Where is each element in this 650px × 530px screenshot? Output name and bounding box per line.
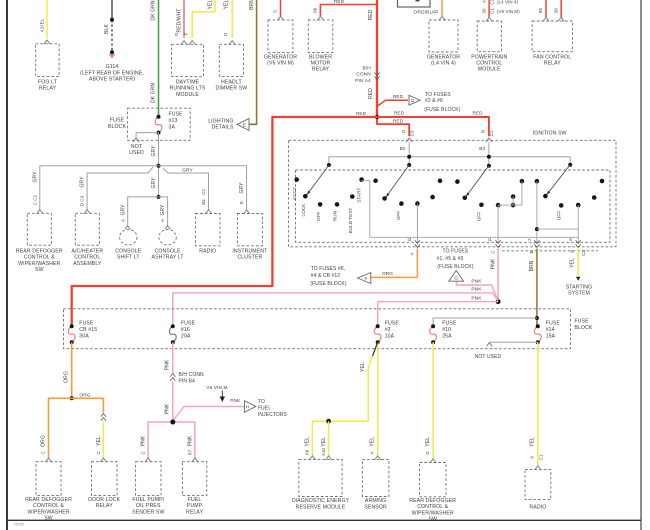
svg-text:FUSE: FUSE — [546, 321, 561, 327]
svg-text:PNK: PNK — [471, 279, 482, 285]
svg-text:OIL PRES: OIL PRES — [136, 503, 161, 509]
svg-text:(L4 VIN 4): (L4 VIN 4) — [497, 0, 518, 5]
svg-text:TO FUSES: TO FUSES — [443, 249, 469, 255]
svg-text:#4 & CB #12: #4 & CB #12 — [311, 273, 341, 279]
svg-text:YEL: YEL — [370, 437, 376, 447]
svg-text:CB #15: CB #15 — [79, 327, 97, 333]
svg-text:YEL: YEL — [224, 0, 230, 9]
svg-text:TO FUSES #8,: TO FUSES #8, — [311, 266, 345, 272]
svg-text:SENDER SW: SENDER SW — [132, 509, 164, 515]
svg-text:ASHTRAY LT: ASHTRAY LT — [152, 255, 185, 261]
svg-text:#3: #3 — [385, 327, 391, 333]
svg-text:#2 & #6: #2 & #6 — [425, 98, 443, 104]
svg-text:YEL: YEL — [40, 18, 45, 27]
svg-text:D: D — [174, 33, 179, 36]
svg-text:PNK: PNK — [141, 435, 147, 446]
svg-text:C2: C2 — [581, 250, 586, 256]
svg-text:FUSE: FUSE — [442, 321, 457, 327]
svg-text:PNK: PNK — [164, 403, 170, 414]
svg-text:RUN: RUN — [333, 211, 338, 221]
svg-text:#14: #14 — [546, 327, 555, 333]
svg-text:C: C — [141, 451, 146, 454]
svg-text:A: A — [528, 237, 531, 242]
svg-text:G114: G114 — [106, 64, 119, 70]
svg-text:A: A — [160, 219, 165, 222]
svg-text:PNK: PNK — [230, 398, 241, 404]
svg-text:C: C — [96, 451, 101, 454]
svg-text:FAN CONTROL: FAN CONTROL — [533, 54, 571, 60]
svg-text:ASSEMBLY: ASSEMBLY — [73, 261, 102, 267]
svg-text:DIMMER SW: DIMMER SW — [216, 86, 248, 92]
svg-text:A: A — [409, 252, 414, 255]
svg-text:H: H — [246, 404, 250, 409]
svg-text:CONSOLE: CONSOLE — [115, 248, 142, 254]
svg-text:C1: C1 — [490, 8, 495, 14]
svg-text:FUSE: FUSE — [79, 321, 94, 327]
svg-text:REAR DEFOGGER: REAR DEFOGGER — [16, 248, 63, 254]
svg-text:B2: B2 — [400, 146, 406, 151]
svg-text:YEL: YEL — [360, 362, 366, 372]
svg-text:CLUSTER: CLUSTER — [237, 255, 262, 261]
svg-text:MODULE: MODULE — [176, 92, 199, 98]
svg-text:85: 85 — [538, 8, 543, 14]
svg-text:FUSE: FUSE — [574, 319, 589, 325]
svg-text:SENSOR: SENSOR — [364, 504, 387, 510]
svg-text:PNK: PNK — [471, 295, 482, 301]
svg-text:G: G — [454, 275, 458, 280]
svg-text:SW: SW — [35, 267, 44, 273]
svg-text:A: A — [481, 0, 486, 3]
svg-text:C3: C3 — [409, 130, 414, 136]
svg-text:RELAY: RELAY — [186, 509, 204, 515]
svg-text:GRY: GRY — [80, 176, 86, 188]
svg-text:A/C/HEATER: A/C/HEATER — [71, 248, 103, 254]
svg-text:SHIFT LT: SHIFT LT — [117, 255, 141, 261]
svg-text:C2: C2 — [490, 0, 495, 5]
svg-text:A10: A10 — [321, 447, 326, 456]
svg-text:(FUSE BLOCK): (FUSE BLOCK) — [310, 281, 346, 287]
svg-text:OFF: OFF — [316, 211, 321, 221]
svg-text:CONTROL &: CONTROL & — [33, 503, 64, 509]
svg-text:ORG: ORG — [63, 371, 69, 383]
svg-text:CONTROL &: CONTROL & — [24, 255, 55, 261]
svg-text:G: G — [425, 451, 430, 455]
svg-text:B/H: B/H — [363, 65, 372, 71]
svg-text:TO FUSES: TO FUSES — [425, 92, 451, 98]
svg-text:C2: C2 — [201, 189, 206, 195]
svg-text:CONSOLE: CONSOLE — [155, 248, 182, 254]
svg-text:REAR DEFOGGER: REAR DEFOGGER — [409, 498, 456, 504]
svg-text:CONTROL: CONTROL — [476, 61, 502, 67]
svg-text:RELAY: RELAY — [96, 503, 114, 509]
svg-text:(LEFT REAR OF ENGINE,: (LEFT REAR OF ENGINE, — [80, 70, 144, 76]
svg-text:FUEL: FUEL — [258, 406, 271, 412]
svg-text:TO: TO — [258, 399, 265, 405]
svg-text:FOG LT: FOG LT — [38, 80, 58, 86]
svg-text:YEL: YEL — [305, 437, 311, 447]
svg-text:S: S — [273, 10, 278, 13]
svg-text:D: D — [411, 98, 415, 103]
svg-text:REAR DEFOGGER: REAR DEFOGGER — [25, 497, 72, 503]
svg-text:YEL: YEL — [207, 0, 213, 9]
svg-text:GRY: GRY — [239, 182, 245, 194]
svg-text:RESERVE MODULE: RESERVE MODULE — [296, 504, 346, 510]
svg-text:E: E — [529, 250, 534, 253]
svg-text:#1, #5 & #9: #1, #5 & #9 — [437, 256, 464, 262]
svg-text:GENERATOR: GENERATOR — [264, 54, 297, 60]
svg-text:NOT: NOT — [131, 144, 143, 150]
svg-text:#13: #13 — [169, 118, 178, 124]
svg-text:RED: RED — [368, 9, 374, 20]
svg-text:GRY: GRY — [151, 145, 157, 157]
svg-text:ABOVE STARTER): ABOVE STARTER) — [89, 77, 135, 83]
svg-text:YEL: YEL — [96, 436, 102, 446]
svg-text:RED: RED — [334, 0, 345, 4]
svg-text:PIN A4: PIN A4 — [355, 78, 371, 84]
svg-text:ARMING: ARMING — [365, 498, 386, 504]
svg-text:C: C — [41, 451, 46, 454]
svg-text:RUNNING LTS: RUNNING LTS — [170, 86, 206, 92]
svg-text:BLOCK: BLOCK — [108, 124, 127, 130]
svg-text:B/H CONN: B/H CONN — [179, 372, 205, 378]
svg-text:WIPER/WASHER: WIPER/WASHER — [18, 261, 60, 267]
svg-text:#10: #10 — [442, 327, 451, 333]
svg-text:DOOR LOCK: DOOR LOCK — [88, 497, 120, 503]
svg-text:O: O — [401, 129, 406, 133]
svg-text:D: D — [223, 33, 228, 36]
svg-text:DK GRN: DK GRN — [151, 0, 157, 20]
svg-text:9: 9 — [529, 456, 534, 459]
svg-text:RED: RED — [393, 119, 404, 124]
svg-text:WIPER/WASHER: WIPER/WASHER — [412, 510, 454, 516]
svg-text:C1: C1 — [489, 130, 494, 136]
svg-text:GRY: GRY — [120, 204, 126, 216]
svg-text:GRY: GRY — [32, 171, 38, 183]
svg-text:ORG: ORG — [41, 435, 47, 447]
svg-text:MODULE: MODULE — [478, 67, 501, 73]
svg-text:ORG/BLK: ORG/BLK — [413, 10, 436, 16]
svg-text:BLOCK: BLOCK — [574, 325, 593, 331]
svg-text:YEL: YEL — [529, 437, 535, 447]
svg-text:CONTROL &: CONTROL & — [417, 504, 448, 510]
svg-text:STARTING: STARTING — [566, 284, 593, 290]
svg-text:C1: C1 — [539, 454, 544, 460]
svg-text:RADIO: RADIO — [199, 248, 216, 254]
svg-text:V6 VIN M: V6 VIN M — [206, 385, 227, 391]
svg-text:YEL: YEL — [570, 258, 576, 268]
svg-text:INSTRUMENT: INSTRUMENT — [232, 248, 268, 254]
svg-text:FUSE: FUSE — [110, 118, 125, 124]
svg-text:3A: 3A — [169, 124, 176, 130]
svg-text:OFF: OFF — [396, 211, 401, 221]
svg-text:BULB TEST: BULB TEST — [348, 207, 353, 233]
svg-text:F: F — [365, 276, 368, 281]
svg-text:SW: SW — [428, 517, 437, 523]
svg-text:PNK: PNK — [164, 359, 170, 370]
svg-text:C C1: C C1 — [32, 194, 37, 205]
svg-text:MOTOR: MOTOR — [311, 61, 331, 67]
svg-text:ORG: ORG — [79, 392, 90, 398]
svg-text:FUSE: FUSE — [385, 321, 400, 327]
svg-text:A: A — [570, 250, 575, 253]
svg-text:BRN: BRN — [529, 260, 535, 271]
svg-text:E: E — [239, 201, 244, 204]
svg-text:RED: RED — [393, 94, 404, 99]
svg-text:D C3: D C3 — [80, 195, 85, 206]
svg-text:RED: RED — [368, 88, 374, 99]
svg-text:BLK: BLK — [104, 24, 110, 34]
svg-text:ACCY: ACCY — [292, 187, 297, 200]
svg-text:D: D — [434, 10, 439, 13]
svg-text:PUMP: PUMP — [187, 503, 203, 509]
svg-text:30A: 30A — [79, 333, 89, 339]
svg-text:GENERATOR: GENERATOR — [427, 54, 460, 60]
svg-text:OFF: OFF — [557, 211, 562, 221]
svg-text:A1: A1 — [40, 26, 45, 32]
svg-text:RADIO: RADIO — [529, 505, 546, 511]
svg-text:GRY: GRY — [160, 204, 166, 216]
svg-text:GRY: GRY — [182, 167, 193, 173]
svg-text:WIPER/WASHER: WIPER/WASHER — [27, 509, 69, 515]
svg-text:10A: 10A — [385, 333, 395, 339]
svg-text:I3: I3 — [408, 237, 412, 242]
svg-text:(V6 VIN M): (V6 VIN M) — [497, 9, 520, 14]
svg-text:DK GRN: DK GRN — [151, 83, 157, 103]
svg-text:RED: RED — [394, 111, 405, 116]
svg-text:FUSE: FUSE — [169, 112, 184, 118]
svg-text:RELAY: RELAY — [39, 86, 57, 92]
svg-text:FUEL: FUEL — [188, 497, 202, 503]
svg-text:OFF: OFF — [477, 212, 482, 222]
svg-text:PNK: PNK — [490, 258, 496, 269]
svg-text:DAYTIME: DAYTIME — [176, 80, 200, 86]
svg-text:E: E — [243, 122, 246, 127]
svg-text:S: S — [569, 237, 572, 242]
svg-text:RELAY: RELAY — [544, 61, 562, 67]
svg-text:GRY: GRY — [151, 177, 157, 189]
svg-text:B: B — [480, 130, 485, 133]
svg-text:(FUSE BLOCK): (FUSE BLOCK) — [437, 264, 473, 270]
svg-text:20A: 20A — [181, 333, 191, 339]
svg-text:86: 86 — [313, 7, 318, 13]
svg-text:(V6 VIN M): (V6 VIN M) — [267, 61, 294, 67]
svg-text:SW: SW — [44, 516, 53, 522]
svg-text:RELAY: RELAY — [312, 67, 330, 73]
svg-text:CONN: CONN — [356, 72, 371, 78]
svg-text:87: 87 — [187, 449, 192, 455]
svg-text:CONTROL: CONTROL — [74, 255, 100, 261]
svg-text:YEL: YEL — [321, 437, 327, 447]
svg-text:BLOWER: BLOWER — [309, 54, 332, 60]
svg-text:PIN B4: PIN B4 — [179, 378, 196, 384]
svg-text:YEL: YEL — [425, 437, 431, 447]
svg-text:#16: #16 — [181, 327, 190, 333]
svg-text:DETAILS: DETAILS — [212, 125, 234, 131]
svg-text:F: F — [184, 32, 189, 35]
svg-text:A8: A8 — [305, 449, 310, 455]
svg-text:DIAGNOSTIC ENERGY: DIAGNOSTIC ENERGY — [292, 498, 350, 504]
svg-text:BRN: BRN — [249, 0, 255, 10]
svg-text:RED: RED — [473, 111, 484, 116]
svg-text:FUEL PUMP/: FUEL PUMP/ — [132, 497, 164, 503]
svg-text:A: A — [370, 451, 375, 454]
svg-text:B4: B4 — [201, 199, 206, 205]
svg-text:LOCK: LOCK — [301, 203, 306, 217]
svg-text:(L4 VIN 4): (L4 VIN 4) — [431, 61, 456, 67]
svg-text:25A: 25A — [442, 333, 452, 339]
svg-text:30: 30 — [553, 8, 558, 14]
svg-text:PNK: PNK — [471, 286, 482, 292]
svg-text:15A: 15A — [546, 333, 556, 339]
svg-text:PNK: PNK — [187, 435, 193, 446]
svg-text:START: START — [357, 188, 362, 203]
svg-text:SYSTEM: SYSTEM — [568, 291, 590, 297]
svg-text:ORG: ORG — [382, 271, 393, 277]
svg-text:A: A — [120, 219, 125, 222]
svg-text:RED: RED — [356, 111, 367, 116]
svg-text:IGNITION SW: IGNITION SW — [533, 130, 567, 136]
svg-text:(FUSE BLOCK): (FUSE BLOCK) — [424, 107, 460, 113]
svg-text:FUSE: FUSE — [181, 321, 196, 327]
svg-text:LIGHTING: LIGHTING — [208, 118, 233, 124]
svg-text:POWERTRAIN: POWERTRAIN — [471, 54, 507, 60]
svg-text:HEADLT: HEADLT — [221, 80, 242, 86]
svg-text:B3: B3 — [479, 146, 485, 151]
svg-text:20: 20 — [481, 8, 486, 14]
svg-text:NOT USED: NOT USED — [475, 354, 502, 360]
svg-text:79702: 79702 — [14, 523, 24, 527]
svg-text:I1: I1 — [488, 237, 492, 242]
svg-text:RED/WHT: RED/WHT — [176, 8, 182, 32]
svg-text:USED: USED — [129, 150, 144, 156]
svg-text:INJECTORS: INJECTORS — [258, 412, 288, 418]
svg-text:C: C — [490, 250, 495, 253]
